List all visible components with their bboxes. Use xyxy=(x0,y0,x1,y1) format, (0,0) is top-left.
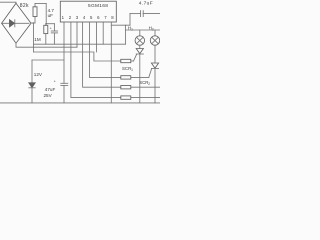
svg-text:2: 2 xyxy=(148,82,150,86)
thyristor SCR2 label xyxy=(139,80,150,86)
wire lamp riser xyxy=(125,25,127,44)
ground bus wire xyxy=(0,102,160,104)
gate resistor R3 wire to edge xyxy=(131,86,160,88)
thyristor SCR1 xyxy=(134,49,144,103)
svg-text:+: + xyxy=(54,80,56,84)
svg-text:+: + xyxy=(50,26,52,30)
svg-text:4: 4 xyxy=(83,15,86,20)
gate resistor R4 wire to edge xyxy=(131,97,160,99)
junction bridge right vertex xyxy=(32,22,34,24)
lamp H2 label xyxy=(149,25,154,31)
wire rail upper xyxy=(34,43,126,45)
svg-text:2: 2 xyxy=(69,15,72,20)
lamp H2 xyxy=(150,30,160,63)
svg-text:7: 7 xyxy=(104,15,107,20)
svg-text:4.7uF: 4.7uF xyxy=(139,0,153,6)
gate resistor R1 xyxy=(121,59,131,62)
svg-text:12V: 12V xyxy=(34,72,43,77)
resistor 1M xyxy=(44,24,48,45)
thyristor SCR2 xyxy=(149,63,159,103)
gate resistor R3 xyxy=(121,86,131,89)
wire rail lower with jog to gate row 1 xyxy=(34,52,121,61)
gate resistor R2 xyxy=(121,76,131,79)
lamp H1 xyxy=(135,30,145,49)
svg-text:2: 2 xyxy=(152,27,154,31)
zener diode 12V xyxy=(29,60,35,103)
svg-text:82k: 82k xyxy=(20,3,29,9)
wire riser to node A xyxy=(45,4,47,24)
svg-text:3: 3 xyxy=(76,15,79,20)
capacitor C2 4.7uF coupling xyxy=(130,11,160,17)
lamp H1 label xyxy=(128,25,133,31)
IC pin numbers 1-8 xyxy=(62,15,115,20)
pin 3 wire to bridge return line xyxy=(76,22,78,47)
svg-text:uF: uF xyxy=(48,13,54,18)
gate resistor R2 wire xyxy=(131,76,149,78)
wire AC input top xyxy=(0,2,16,3)
pin 1 wire to node line xyxy=(63,22,65,60)
wire 82k top to cap riser xyxy=(35,3,46,5)
gate resistor R4 xyxy=(121,96,131,99)
pin 4 wire to gate row 3 xyxy=(83,22,121,87)
svg-text:47uF: 47uF xyxy=(45,87,56,92)
svg-text:SCR: SCR xyxy=(139,80,148,85)
svg-text:5: 5 xyxy=(90,15,93,20)
gate resistor R1 wire xyxy=(131,60,134,62)
wire bridge right vertex link xyxy=(31,22,35,24)
capacitor 4.7uF label xyxy=(48,8,55,18)
svg-text:1: 1 xyxy=(131,27,133,31)
svg-text:SCR: SCR xyxy=(122,66,131,71)
wire pin 8 branch to lamp riser xyxy=(111,24,130,26)
wire lamp rail xyxy=(126,29,161,31)
thyristor SCR1 label xyxy=(122,66,133,72)
svg-text:25V: 25V xyxy=(44,93,53,98)
wire node line to regulator xyxy=(32,59,64,61)
pin 2 wire to gate row 4 xyxy=(71,22,121,98)
pin 8 wire long vertical to bus xyxy=(110,22,112,103)
wire column from bridge right vertex down xyxy=(33,23,35,52)
pin 5 wire to gate row 2 xyxy=(90,22,121,77)
svg-text:6: 6 xyxy=(97,15,100,20)
pin 7 wire to upper rail xyxy=(102,22,104,44)
diode inside bridge xyxy=(2,20,29,27)
svg-text:1M: 1M xyxy=(34,37,41,42)
wire node A xyxy=(46,23,54,25)
svg-text:1: 1 xyxy=(62,15,65,20)
IC U1 5GM168 xyxy=(60,1,116,22)
bridge rectifier B1 xyxy=(2,3,31,43)
capacitor C1 4.7uF xyxy=(50,24,58,45)
pin 6 wire to lower rail xyxy=(96,22,98,52)
wire bridge bottom to ground path xyxy=(16,43,77,47)
capacitor 47uF 25V xyxy=(54,60,68,103)
svg-text:8: 8 xyxy=(111,15,114,20)
wire riser to coupling cap xyxy=(129,14,131,26)
svg-text:1: 1 xyxy=(131,68,133,72)
node A junction xyxy=(45,23,47,25)
resistor 82k xyxy=(33,4,37,24)
svg-text:5GM168: 5GM168 xyxy=(88,3,108,9)
